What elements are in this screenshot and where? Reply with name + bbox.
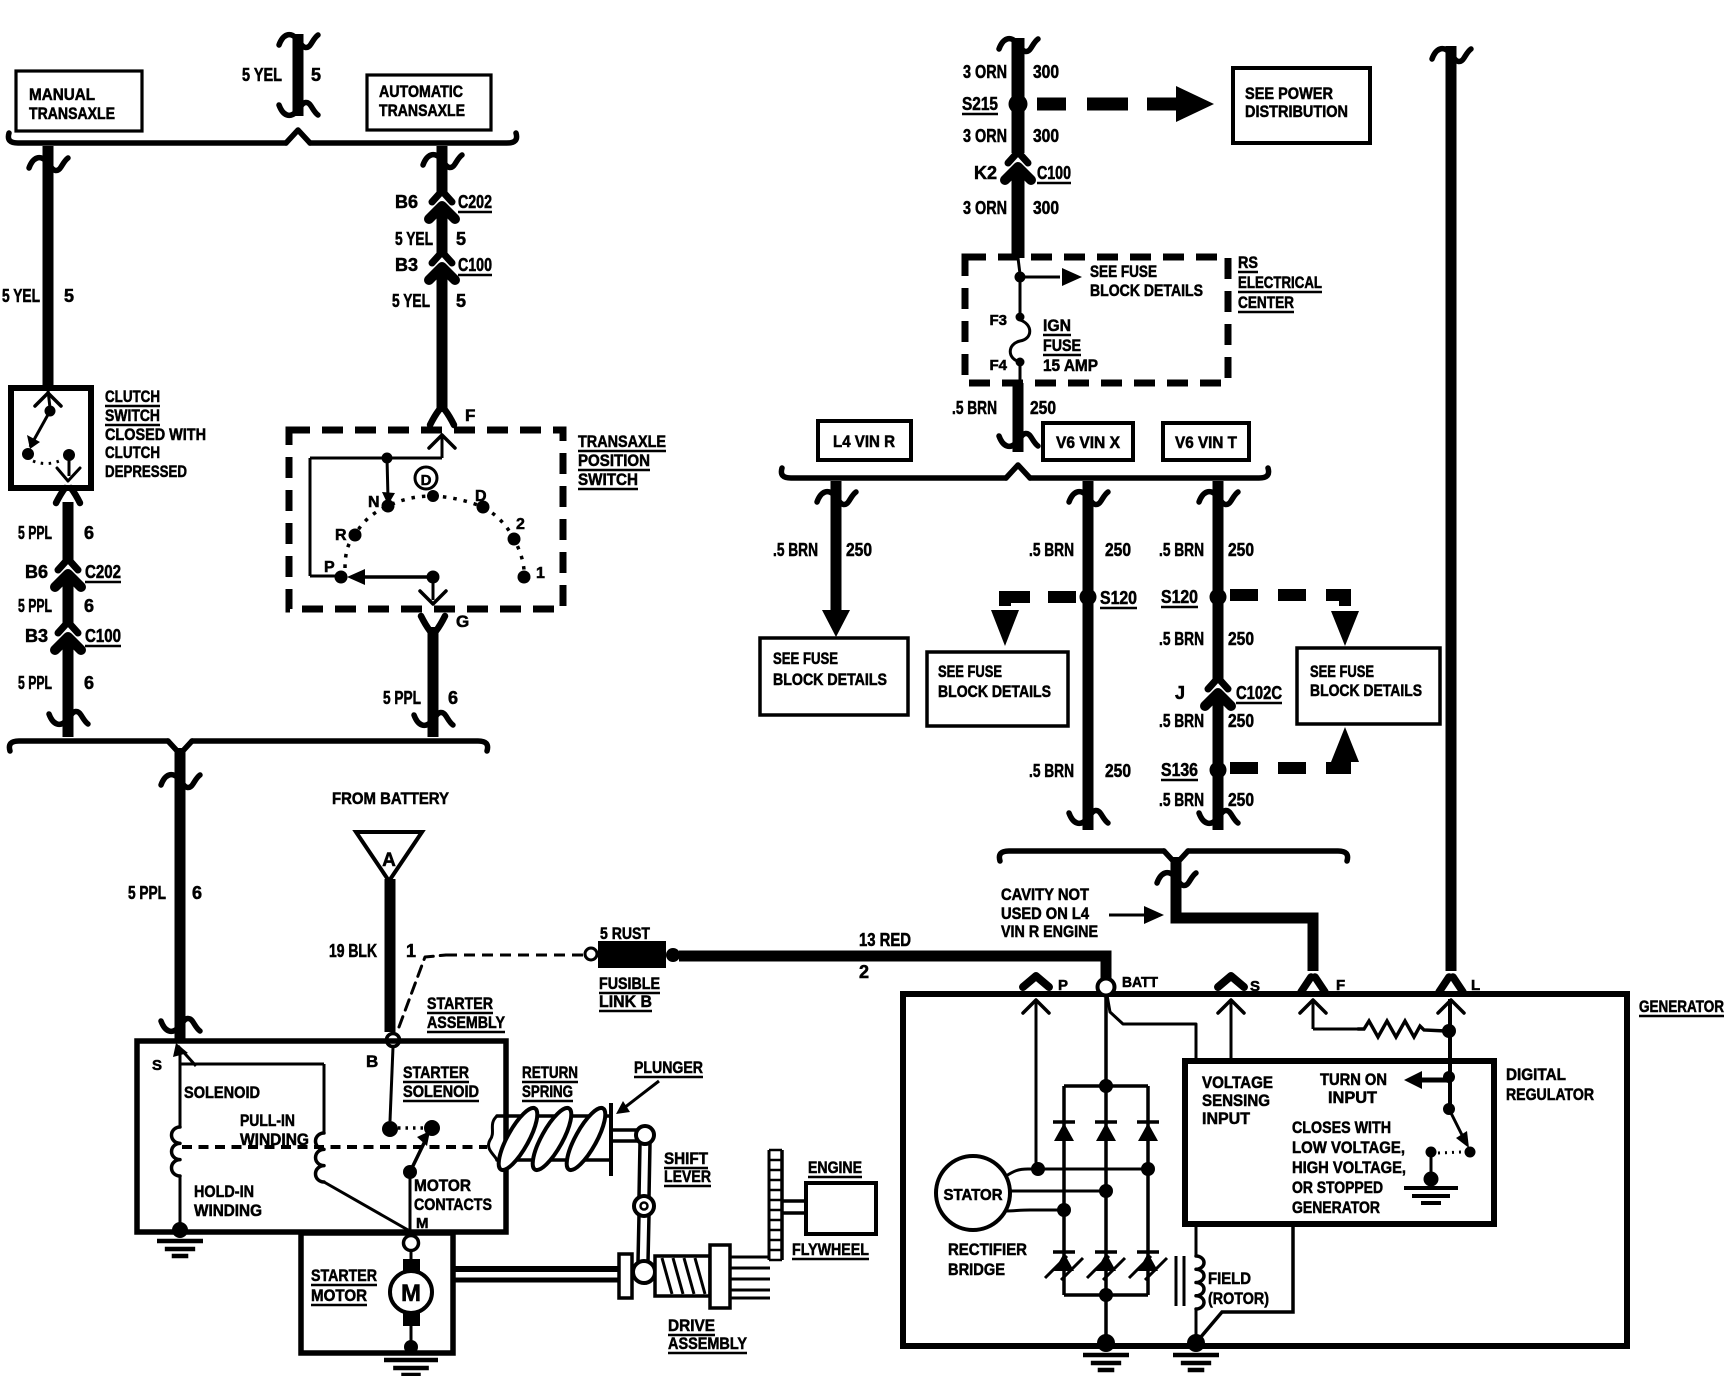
clutch branch female connector xyxy=(56,488,80,503)
svg-text:300: 300 xyxy=(1033,126,1059,146)
svg-text:.5 BRN: .5 BRN xyxy=(773,540,818,560)
svg-text:15 AMP: 15 AMP xyxy=(1043,356,1098,375)
label B6 C202 automatic xyxy=(395,192,492,212)
svg-text:5 PPL: 5 PPL xyxy=(383,688,421,708)
brace PPL join xyxy=(9,741,487,754)
svg-text:.5 BRN: .5 BRN xyxy=(1159,629,1204,649)
label STARTER SOLENOID xyxy=(403,1063,479,1101)
svg-text:SEE FUSE: SEE FUSE xyxy=(1310,663,1374,681)
svg-text:SOLENOID: SOLENOID xyxy=(403,1082,479,1101)
svg-text:SEE POWER: SEE POWER xyxy=(1245,84,1333,103)
ignition fuse xyxy=(1010,277,1030,384)
arrow into fuse box L4 xyxy=(822,610,850,637)
plunger rod xyxy=(489,1116,609,1160)
BATT sense line xyxy=(1107,995,1196,1061)
wire to generator F xyxy=(1157,857,1313,971)
motor contact dots xyxy=(382,1120,440,1137)
svg-text:5: 5 xyxy=(456,229,466,249)
connector C102C xyxy=(1205,679,1231,706)
label 5 YEL 5 mid xyxy=(395,229,466,249)
svg-text:6: 6 xyxy=(84,523,94,543)
svg-text:FROM BATTERY: FROM BATTERY xyxy=(332,789,450,808)
clutch switch label xyxy=(105,387,206,481)
svg-text:CLUTCH: CLUTCH xyxy=(105,443,160,462)
terminal S xyxy=(1218,976,1260,995)
label ENGINE xyxy=(808,1158,862,1177)
svg-text:USED ON L4: USED ON L4 xyxy=(1001,904,1089,923)
wire 3 ORN mid xyxy=(1012,104,1025,153)
svg-text:.5 BRN: .5 BRN xyxy=(952,398,997,418)
label box V6 VIN X xyxy=(1043,423,1133,460)
svg-text:5: 5 xyxy=(456,291,466,311)
flywheel ring gear xyxy=(769,1150,782,1260)
svg-text:SEE FUSE: SEE FUSE xyxy=(1090,263,1157,281)
label FLYWHEEL xyxy=(792,1240,869,1259)
wire 5 PPL c xyxy=(49,639,88,737)
plunger linkage dashed line xyxy=(182,1145,487,1149)
svg-text:C100: C100 xyxy=(458,255,492,275)
svg-text:TRANSAXLE: TRANSAXLE xyxy=(379,101,465,120)
svg-text:D: D xyxy=(421,472,432,489)
svg-text:SWITCH: SWITCH xyxy=(578,470,638,489)
diode bottom right xyxy=(1129,1252,1167,1280)
label STARTER MOTOR xyxy=(311,1266,377,1305)
S sense line xyxy=(1218,999,1244,1061)
regulator field return xyxy=(1200,1224,1293,1338)
svg-text:L: L xyxy=(1471,977,1480,994)
svg-text:BLOCK DETAILS: BLOCK DETAILS xyxy=(773,671,887,689)
splice S120 T xyxy=(1210,589,1227,606)
label 5 PPL 6 c xyxy=(18,673,94,693)
svg-text:N: N xyxy=(368,494,380,511)
svg-text:B: B xyxy=(366,1052,378,1071)
svg-text:SENSING: SENSING xyxy=(1202,1091,1270,1110)
field ground xyxy=(1173,1355,1219,1370)
label K2 C100 xyxy=(974,163,1071,183)
dashed arrow to fuse box T xyxy=(1230,595,1359,646)
svg-text:S120: S120 xyxy=(1161,587,1198,607)
svg-text:250: 250 xyxy=(1228,790,1254,810)
label S120 X xyxy=(1100,588,1137,608)
label RECTIFIER BRIDGE xyxy=(948,1240,1027,1279)
rectifier ground dot xyxy=(1097,1334,1115,1352)
label .5 BRN 250 T lower2 xyxy=(1159,711,1254,731)
svg-text:1: 1 xyxy=(536,565,545,582)
svg-text:ASSEMBLY: ASSEMBLY xyxy=(668,1334,748,1353)
wire 5 YEL manual branch xyxy=(29,146,68,388)
fuse feed junction xyxy=(1015,258,1083,286)
plunger face xyxy=(609,1103,613,1176)
svg-text:OR STOPPED: OR STOPPED xyxy=(1292,1178,1383,1197)
svg-text:5 PPL: 5 PPL xyxy=(18,673,52,693)
svg-text:TRANSAXLE: TRANSAXLE xyxy=(578,432,666,451)
label 3 ORN 300 c xyxy=(963,198,1059,218)
regulator switch xyxy=(1424,1103,1476,1187)
F field line xyxy=(1300,999,1360,1029)
wire 5 YEL automatic branch upper xyxy=(423,146,462,192)
solenoid ground xyxy=(157,1241,203,1256)
svg-text:3 ORN: 3 ORN xyxy=(963,198,1007,218)
rectifier rail dots xyxy=(1099,1079,1113,1302)
label 5 PPL 6 d xyxy=(128,883,202,903)
svg-text:FUSIBLE: FUSIBLE xyxy=(599,974,660,993)
brace VIN split xyxy=(781,465,1268,478)
label .5 BRN 250 T bottom xyxy=(1159,790,1254,810)
label RETURN SPRING xyxy=(522,1063,578,1101)
svg-text:VIN R ENGINE: VIN R ENGINE xyxy=(1001,922,1098,941)
engine box xyxy=(806,1183,876,1234)
label S120 T xyxy=(1161,587,1198,607)
label 5 YEL 5 lower xyxy=(392,291,466,311)
svg-text:C102C: C102C xyxy=(1236,683,1282,703)
svg-text:F3: F3 xyxy=(989,312,1007,329)
svg-text:V6 VIN X: V6 VIN X xyxy=(1056,433,1121,452)
svg-text:S120: S120 xyxy=(1100,588,1137,608)
voltage regulator box xyxy=(1185,1061,1494,1224)
wire 5 YEL between transaxle options xyxy=(279,34,318,116)
svg-text:SOLENOID: SOLENOID xyxy=(184,1083,260,1102)
stator lead top xyxy=(1006,1169,1148,1176)
label 13 RED 2 xyxy=(859,930,911,982)
svg-text:DEPRESSED: DEPRESSED xyxy=(105,462,187,481)
svg-text:S: S xyxy=(152,1057,162,1074)
svg-text:250: 250 xyxy=(1228,540,1254,560)
starter assembly leader xyxy=(399,955,583,1027)
wire 5 PPL from G xyxy=(414,627,453,737)
label box V6 VIN T xyxy=(1163,423,1249,460)
wire .5 BRN T mid xyxy=(1213,597,1224,679)
svg-text:13 RED: 13 RED xyxy=(859,930,911,950)
label 5 YEL 5 top xyxy=(242,65,321,85)
label 5 PPL 6 b xyxy=(18,596,94,616)
svg-text:250: 250 xyxy=(846,540,872,560)
svg-text:V6 VIN T: V6 VIN T xyxy=(1175,433,1238,452)
svg-text:BLOCK DETAILS: BLOCK DETAILS xyxy=(1310,682,1422,700)
hold-in winding lead xyxy=(179,1176,182,1228)
terminal B circle xyxy=(387,1034,400,1047)
label .5 BRN 250 X xyxy=(1029,540,1131,560)
label STARTER ASSEMBLY xyxy=(427,994,506,1032)
svg-text:R: R xyxy=(335,527,347,544)
svg-text:S136: S136 xyxy=(1161,760,1198,780)
svg-text:.5 BRN: .5 BRN xyxy=(1029,540,1074,560)
label DIGITAL REGULATOR xyxy=(1506,1065,1594,1104)
label HOLD-IN WINDING xyxy=(194,1182,262,1220)
drive helix xyxy=(655,1256,710,1296)
svg-text:ASSEMBLY: ASSEMBLY xyxy=(427,1013,506,1032)
label J C102C xyxy=(1175,683,1282,703)
drive pinion xyxy=(710,1245,730,1308)
diode bottom mid xyxy=(1087,1252,1125,1280)
connector C100 automatic branch xyxy=(429,253,455,280)
svg-text:GENERATOR: GENERATOR xyxy=(1292,1198,1380,1217)
starter motor box xyxy=(301,1233,453,1353)
label 3 ORN 300 a xyxy=(963,62,1059,82)
dashed arrow to fuse box X xyxy=(991,597,1076,646)
label F3 F4 xyxy=(989,312,1007,374)
label FROM BATTERY xyxy=(332,789,450,808)
svg-text:J: J xyxy=(1175,683,1185,703)
terminal M circle xyxy=(404,1236,419,1251)
see fuse block details box L4 xyxy=(760,638,908,715)
svg-text:19 BLK: 19 BLK xyxy=(329,941,377,961)
see power distribution arrow xyxy=(1037,86,1214,122)
splice S215 xyxy=(1009,95,1028,114)
svg-text:300: 300 xyxy=(1033,198,1059,218)
svg-text:C202: C202 xyxy=(458,192,492,212)
terminal G flare xyxy=(421,612,469,631)
label DRIVE ASSEMBLY xyxy=(668,1316,748,1353)
label B3 C100 automatic xyxy=(395,255,492,275)
svg-text:CLUTCH: CLUTCH xyxy=(105,387,160,406)
svg-text:300: 300 xyxy=(1033,62,1059,82)
svg-text:C202: C202 xyxy=(85,562,121,582)
svg-text:6: 6 xyxy=(192,883,202,903)
svg-text:STARTER: STARTER xyxy=(427,994,493,1013)
svg-text:(ROTOR): (ROTOR) xyxy=(1208,1289,1269,1308)
label B3 C100 clutch branch xyxy=(25,626,121,646)
svg-text:DISTRIBUTION: DISTRIBUTION xyxy=(1245,102,1348,121)
svg-text:PLUNGER: PLUNGER xyxy=(634,1058,703,1077)
stator xyxy=(936,1156,1010,1230)
shift lever xyxy=(612,1126,654,1262)
pull-in winding xyxy=(315,1133,324,1182)
svg-text:SWITCH: SWITCH xyxy=(105,406,160,425)
solenoid ground dot xyxy=(172,1222,188,1238)
label 5 YEL 5 manual branch xyxy=(2,286,74,306)
wire .5 BRN X branch xyxy=(1069,481,1108,830)
dashed arrow from S136 xyxy=(1230,727,1359,768)
label SOLENOID xyxy=(184,1083,260,1102)
svg-text:F: F xyxy=(1336,977,1345,994)
svg-text:2: 2 xyxy=(516,516,525,533)
svg-text:.5 BRN: .5 BRN xyxy=(1159,711,1204,731)
field rotor coil xyxy=(1176,1224,1204,1338)
rotary dotted arc xyxy=(345,496,524,570)
label 3 ORN 300 b xyxy=(963,126,1059,146)
drive collar xyxy=(619,1254,632,1298)
label SEE FUSE BLOCK DETAILS rs xyxy=(1090,263,1203,300)
battery source triangle A xyxy=(356,832,422,881)
label 19 BLK 1 xyxy=(329,941,416,961)
svg-text:3 ORN: 3 ORN xyxy=(963,126,1007,146)
rotary contact dots xyxy=(335,490,531,584)
svg-text:FLYWHEEL: FLYWHEEL xyxy=(792,1240,869,1259)
label .5 BRN 250 L4 xyxy=(773,540,872,560)
svg-text:M: M xyxy=(416,1215,429,1232)
terminal F xyxy=(1301,977,1345,994)
label MOTOR CONTACTS M xyxy=(414,1176,492,1232)
terminal P xyxy=(1023,976,1068,994)
svg-text:BATT: BATT xyxy=(1122,974,1158,991)
label PLUNGER xyxy=(634,1058,703,1077)
label B6 C202 clutch branch xyxy=(25,562,121,582)
motor contact feed xyxy=(390,1047,393,1121)
svg-text:.5 BRN: .5 BRN xyxy=(1029,761,1074,781)
shift lever ball xyxy=(633,1261,655,1283)
rectifier ground xyxy=(1083,1355,1129,1370)
starter motor ground dot xyxy=(404,1340,418,1354)
label PULL-IN WINDING xyxy=(240,1111,309,1149)
svg-text:CLOSED WITH: CLOSED WITH xyxy=(105,425,206,444)
svg-text:MANUAL: MANUAL xyxy=(29,85,95,104)
label S215 xyxy=(962,94,998,114)
P sense line xyxy=(1023,999,1049,1166)
label 5 RUST xyxy=(600,924,650,943)
svg-text:5 PPL: 5 PPL xyxy=(18,596,52,616)
svg-text:SHIFT: SHIFT xyxy=(664,1149,709,1168)
clutch switch contacts xyxy=(22,390,80,481)
engine shaft xyxy=(782,1201,806,1213)
generator box xyxy=(903,994,1627,1346)
transaxle position switch label xyxy=(578,432,666,489)
junction dots stator leads xyxy=(1031,1162,1155,1217)
connector C100 clutch branch xyxy=(55,623,81,650)
svg-text:GENERATOR: GENERATOR xyxy=(1639,997,1724,1016)
starter motor ground xyxy=(384,1360,438,1375)
terminal BATT xyxy=(1098,974,1159,996)
svg-text:REGULATOR: REGULATOR xyxy=(1506,1085,1594,1104)
svg-text:250: 250 xyxy=(1228,711,1254,731)
svg-text:VOLTAGE: VOLTAGE xyxy=(1202,1073,1273,1092)
transaxle position switch box xyxy=(289,430,563,609)
svg-text:250: 250 xyxy=(1105,540,1131,560)
svg-text:M: M xyxy=(401,1280,421,1307)
svg-text:250: 250 xyxy=(1105,761,1131,781)
fusible link B xyxy=(585,941,680,968)
label CAVITY NOT USED xyxy=(1001,885,1098,941)
svg-text:BRIDGE: BRIDGE xyxy=(948,1260,1005,1279)
svg-text:ENGINE: ENGINE xyxy=(808,1158,862,1177)
svg-text:1: 1 xyxy=(406,941,416,961)
hold-in winding xyxy=(171,1127,180,1176)
drive splines xyxy=(730,1257,770,1298)
svg-text:IGN: IGN xyxy=(1043,316,1071,335)
svg-text:5: 5 xyxy=(64,286,74,306)
svg-text:5 PPL: 5 PPL xyxy=(18,523,52,543)
svg-text:LEVER: LEVER xyxy=(664,1167,711,1186)
circled D indicator xyxy=(415,467,437,489)
terminal L xyxy=(1439,977,1480,994)
splice S120 X xyxy=(1080,589,1097,606)
svg-text:5 YEL: 5 YEL xyxy=(395,229,433,249)
svg-text:BLOCK DETAILS: BLOCK DETAILS xyxy=(1090,282,1203,300)
wire 5 PPL to solenoid xyxy=(161,748,200,1041)
svg-text:POSITION: POSITION xyxy=(578,451,650,470)
svg-text:RS: RS xyxy=(1238,253,1258,272)
svg-text:STARTER: STARTER xyxy=(311,1266,377,1285)
svg-text:L4 VIN R: L4 VIN R xyxy=(833,432,895,451)
svg-text:FUSE: FUSE xyxy=(1043,336,1081,355)
svg-text:CLOSES WITH: CLOSES WITH xyxy=(1292,1118,1391,1137)
svg-text:6: 6 xyxy=(84,673,94,693)
svg-text:.5 BRN: .5 BRN xyxy=(1159,790,1204,810)
label B terminal xyxy=(366,1052,378,1071)
wire 3 ORN lower xyxy=(1012,169,1025,258)
wire 13 RED xyxy=(679,956,1106,979)
terminal S entry xyxy=(152,1043,196,1074)
svg-text:AUTOMATIC: AUTOMATIC xyxy=(379,82,463,101)
svg-text:MOTOR: MOTOR xyxy=(311,1286,367,1305)
svg-text:STARTER: STARTER xyxy=(403,1063,469,1082)
svg-text:RECTIFIER: RECTIFIER xyxy=(948,1240,1027,1259)
wire 19 BLK xyxy=(385,879,396,1032)
label SHIFT LEVER xyxy=(664,1149,711,1186)
svg-text:DIGITAL: DIGITAL xyxy=(1506,1065,1566,1084)
svg-text:B6: B6 xyxy=(25,562,48,582)
svg-text:STATOR: STATOR xyxy=(944,1187,1003,1204)
svg-text:B6: B6 xyxy=(395,192,418,212)
see power distribution box xyxy=(1233,68,1370,143)
turn-on arrow xyxy=(1404,1071,1449,1089)
svg-text:5: 5 xyxy=(311,65,321,85)
switch wiper arm xyxy=(347,569,446,604)
starter solenoid box xyxy=(137,1041,506,1232)
connector C202 automatic branch xyxy=(429,192,455,219)
svg-text:F4: F4 xyxy=(989,357,1007,374)
svg-text:C100: C100 xyxy=(85,626,121,646)
stator lead mid xyxy=(1010,1190,1106,1193)
terminal F flare xyxy=(430,406,475,425)
automatic transaxle label box xyxy=(367,75,491,130)
label IGN FUSE 15 AMP xyxy=(1043,316,1098,375)
svg-text:HIGH VOLTAGE,: HIGH VOLTAGE, xyxy=(1292,1158,1406,1177)
label FUSIBLE LINK B xyxy=(599,974,660,1011)
svg-text:K2: K2 xyxy=(974,163,997,183)
svg-text:5 YEL: 5 YEL xyxy=(2,286,40,306)
field resistor xyxy=(1358,1021,1446,1037)
RS electrical center box xyxy=(965,257,1228,383)
field ground dot xyxy=(1187,1334,1205,1352)
svg-text:B3: B3 xyxy=(25,626,48,646)
svg-text:LINK B: LINK B xyxy=(599,992,652,1011)
wire 3 ORN upper xyxy=(999,38,1038,98)
brace generator feed xyxy=(999,851,1347,864)
svg-text:HOLD-IN: HOLD-IN xyxy=(194,1182,254,1201)
svg-text:INPUT: INPUT xyxy=(1202,1109,1251,1128)
connector C100 ORN xyxy=(1005,153,1031,180)
label CLOSES WITH... xyxy=(1292,1118,1406,1217)
svg-text:250: 250 xyxy=(1030,398,1056,418)
svg-text:SEE FUSE: SEE FUSE xyxy=(938,663,1002,681)
svg-text:G: G xyxy=(456,612,469,631)
switch contact N feed xyxy=(382,458,395,505)
label .5 BRN 250 X lower xyxy=(1029,761,1131,781)
diode top right xyxy=(1137,1122,1159,1141)
wire .5 BRN T lower xyxy=(1199,695,1238,830)
svg-text:PULL-IN: PULL-IN xyxy=(240,1111,295,1130)
wire .5 BRN below fuse xyxy=(999,383,1038,452)
svg-text:LOW VOLTAGE,: LOW VOLTAGE, xyxy=(1292,1138,1405,1157)
pull-in winding lead xyxy=(324,1182,408,1230)
svg-text:SEE FUSE: SEE FUSE xyxy=(773,650,838,668)
label .5 BRN 250 fuse xyxy=(952,398,1056,418)
see fuse block details box X xyxy=(927,652,1068,726)
label VOLTAGE SENSING INPUT xyxy=(1202,1073,1273,1128)
svg-text:B3: B3 xyxy=(395,255,418,275)
svg-text:F: F xyxy=(465,406,475,425)
svg-text:RETURN: RETURN xyxy=(522,1063,578,1082)
svg-text:S: S xyxy=(1250,978,1260,995)
svg-text:5 RUST: 5 RUST xyxy=(600,924,650,943)
label RS ELECTRICAL CENTER xyxy=(1238,253,1322,312)
label 5 PPL 6 G xyxy=(383,688,458,708)
svg-text:ELECTRICAL: ELECTRICAL xyxy=(1238,273,1322,292)
manual transaxle label box xyxy=(16,71,142,131)
cavity pointer arrow xyxy=(1109,906,1164,924)
wire 5 YEL mid xyxy=(437,208,448,253)
svg-text:CENTER: CENTER xyxy=(1238,293,1294,312)
